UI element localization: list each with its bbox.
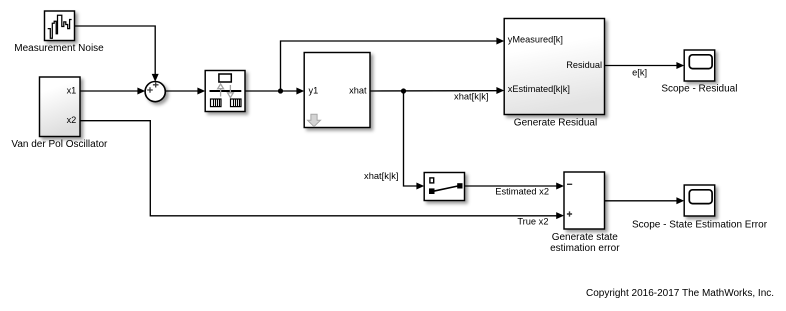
svg-text:y1: y1 bbox=[309, 85, 319, 95]
icon top rectangle bbox=[219, 74, 231, 82]
wire junction down to manual switch bbox=[404, 91, 425, 190]
svg-text:Scope - Residual: Scope - Residual bbox=[661, 84, 737, 95]
block Scope - State Estimation Error bbox=[684, 185, 715, 216]
icon lower-left filled square bbox=[429, 188, 435, 194]
wire Van der Pol x2 to plus input bbox=[80, 121, 564, 219]
scope screen bbox=[689, 190, 712, 204]
icon switch lever line bbox=[434, 186, 459, 191]
wire filter to subsystem y1 bbox=[245, 88, 304, 95]
block Extended Kalman Filter bbox=[205, 71, 245, 112]
plus sign left input bbox=[147, 87, 153, 93]
plus sign top input bbox=[153, 82, 159, 87]
plus sign bbox=[567, 211, 572, 216]
svg-text:Generate state: Generate state bbox=[552, 232, 619, 243]
svg-text:Residual: Residual bbox=[566, 60, 602, 70]
wire Residual to Scope bbox=[605, 62, 684, 69]
icon open square bbox=[430, 178, 434, 183]
svg-text:yMeasured[k]: yMeasured[k] bbox=[508, 35, 563, 45]
block Manual Switch bbox=[424, 173, 464, 201]
gray download arrow icon bbox=[308, 114, 321, 126]
block Van der Pol Oscillator bbox=[40, 77, 81, 137]
block subsystem y1/xhat bbox=[304, 53, 370, 128]
wire junction up to yMeasured[k] bbox=[281, 38, 505, 92]
sum block bbox=[145, 82, 165, 102]
junction node after filter bbox=[278, 88, 283, 93]
svg-text:estimation error: estimation error bbox=[550, 243, 620, 254]
svg-text:xhat[k|k]: xhat[k|k] bbox=[364, 171, 398, 181]
svg-text:True x2: True x2 bbox=[517, 217, 548, 227]
block Scope - Residual bbox=[684, 50, 715, 81]
svg-text:x2: x2 bbox=[67, 115, 77, 125]
junction node after xhat bbox=[401, 88, 406, 93]
icon gray up arrow bbox=[218, 84, 224, 97]
svg-text:Van der Pol Oscillator: Van der Pol Oscillator bbox=[11, 139, 108, 150]
wire from Van der Pol x1 to Sum bbox=[80, 88, 145, 95]
svg-text:Estimated x2: Estimated x2 bbox=[495, 187, 549, 197]
block Generate state estimation error bbox=[564, 172, 605, 229]
svg-text:Copyright 2016-2017 The MathWo: Copyright 2016-2017 The MathWorks, Inc. bbox=[586, 288, 774, 299]
icon middle line bbox=[210, 90, 242, 92]
noise waveform icon bbox=[48, 15, 72, 38]
svg-text:Generate Residual: Generate Residual bbox=[514, 118, 597, 129]
minus sign bbox=[567, 183, 572, 185]
svg-text:xhat[k|k]: xhat[k|k] bbox=[454, 92, 488, 102]
svg-text:Measurement Noise: Measurement Noise bbox=[14, 43, 104, 54]
svg-text:xhat: xhat bbox=[349, 85, 367, 95]
svg-text:e[k]: e[k] bbox=[632, 67, 647, 77]
wire error to Scope2 bbox=[605, 197, 685, 204]
icon left striped buffer bbox=[211, 99, 222, 107]
icon gray down arrow bbox=[228, 85, 234, 98]
wire xhat to xEstimated bbox=[370, 87, 504, 94]
svg-text:x1: x1 bbox=[67, 85, 77, 95]
block Measurement Noise bbox=[45, 11, 75, 41]
wire switch to minus input bbox=[465, 183, 564, 190]
svg-text:xEstimated[k|k]: xEstimated[k|k] bbox=[508, 84, 570, 94]
scope screen bbox=[689, 55, 712, 69]
svg-text:Scope - State Estimation Error: Scope - State Estimation Error bbox=[632, 220, 768, 231]
icon right filled square bbox=[457, 183, 462, 188]
icon right striped buffer bbox=[231, 99, 242, 107]
wire from Measurement Noise to Sum bbox=[75, 26, 159, 82]
wire Sum to filter block bbox=[165, 88, 205, 95]
block Generate Residual bbox=[504, 19, 604, 115]
